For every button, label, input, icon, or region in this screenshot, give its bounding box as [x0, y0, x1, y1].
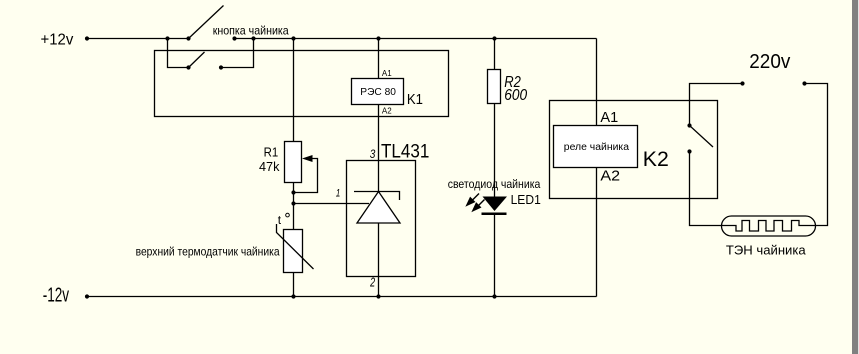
node R1 wiper junction — [291, 190, 295, 194]
wire 220v right lead down to heater — [805, 84, 828, 226]
svg-text:220v: 220v — [749, 51, 790, 73]
svg-text:LED1: LED1 — [511, 193, 541, 207]
svg-text:+12v: +12v — [41, 32, 74, 49]
svg-text:A2: A2 — [600, 167, 620, 184]
resistor R1 body — [285, 142, 302, 183]
node switch lower right contact — [219, 65, 223, 69]
node K1 branch — [376, 36, 380, 40]
wire +12v rail left segment — [87, 38, 189, 40]
node R1 branch — [291, 36, 295, 40]
node +12v rail start — [85, 36, 89, 40]
wire 220v left lead to K2 contact — [690, 84, 743, 126]
wire R1 branch drop — [293, 39, 295, 142]
svg-text:K2: K2 — [643, 148, 669, 171]
svg-text:1: 1 — [336, 188, 341, 200]
node LED rail junction — [492, 294, 496, 298]
LED emission arrow 2 — [477, 200, 485, 208]
node TL431 rail junction — [376, 294, 380, 298]
svg-text:A2: A2 — [382, 107, 392, 116]
svg-text:верхний термодатчик чайника: верхний термодатчик чайника — [136, 245, 280, 259]
thermistor body — [284, 230, 303, 273]
node thermistor rail junction — [291, 294, 295, 298]
wire LED to -12v rail — [494, 215, 496, 297]
LED LED1 triangle — [483, 197, 508, 212]
svg-text:ТЭН чайника: ТЭН чайника — [726, 243, 806, 257]
svg-text:2: 2 — [369, 276, 375, 290]
wire node to TL431 pin 1 — [294, 203, 370, 205]
svg-text:600: 600 — [504, 87, 527, 104]
relay K1 coil box РЭС 80 — [352, 79, 404, 105]
wire TL431 anode to -12v rail — [378, 223, 380, 297]
heater ТЭН stadium outline — [722, 216, 816, 236]
node pin1 junction — [291, 201, 295, 205]
node switch upper left contact — [186, 36, 190, 40]
svg-text:3: 3 — [370, 147, 376, 161]
thermistor diagonal strike — [277, 224, 314, 269]
heater meander element — [722, 221, 816, 232]
svg-text:кнопка чайника: кнопка чайника — [213, 23, 289, 37]
switch S1a blade (кнопка чайника upper contact) — [189, 6, 224, 39]
node at x167.5 — [165, 36, 169, 40]
switch K2 contact blade — [690, 126, 714, 148]
svg-text:47k: 47k — [259, 160, 280, 174]
node 220v left terminal — [740, 81, 744, 85]
wire +12v rail right segment — [235, 38, 597, 40]
wire thermistor to -12v rail — [293, 273, 295, 297]
svg-text:реле чайника: реле чайника — [564, 142, 630, 153]
wire latching loop rectangle — [155, 51, 449, 117]
wire K2 A1 drop from +12v rail — [596, 39, 598, 126]
node K2 contact top — [687, 123, 691, 127]
svg-text:A1: A1 — [600, 109, 618, 126]
relay K2 outer box — [550, 101, 718, 199]
node -12v rail start — [85, 294, 89, 298]
node switch upper right contact — [232, 36, 236, 40]
wire K1 coil A2 to TL431 cathode — [378, 105, 380, 192]
node 220v right terminal — [802, 81, 806, 85]
LED emission arrow 1 — [467, 194, 485, 211]
switch S1b blade (lower latching contact) — [189, 52, 205, 68]
svg-text:R1: R1 — [264, 146, 279, 160]
LED cathode bar — [482, 213, 507, 216]
resistor R1 wiper arrowhead — [302, 155, 313, 162]
svg-text:A1: A1 — [382, 69, 392, 78]
wire R2 branch drop — [494, 39, 496, 70]
wire -12v rail — [87, 296, 597, 298]
node at x253.5 — [251, 36, 255, 40]
relay K2 coil box реле чайника — [554, 126, 638, 168]
svg-text:РЭС 80: РЭС 80 — [360, 86, 396, 98]
op-amp U1 TL431 box — [347, 161, 416, 277]
svg-text:светодиод чайника: светодиод чайника — [448, 177, 541, 191]
wire R1 bottom to thermistor — [293, 183, 295, 230]
wire K2 contact to heater left lead — [690, 152, 723, 226]
right gray border stripe — [852, 0, 858, 354]
wire lower contact left drop — [168, 39, 189, 68]
wire K2 coil A2 to -12v rail — [596, 168, 598, 297]
TL431 triangle — [357, 192, 400, 224]
node switch lower left contact — [186, 65, 190, 69]
wire lower contact right side — [221, 39, 254, 68]
wire R2 to LED — [494, 104, 496, 197]
resistor R2 body — [488, 70, 501, 104]
wire R1 wiper link — [294, 159, 318, 193]
TL431 cathode bar with reference hook — [354, 192, 400, 201]
svg-text:K1: K1 — [407, 91, 423, 108]
node R2 branch — [492, 36, 496, 40]
wire K1 coil A1 drop — [378, 39, 380, 79]
svg-text:-12v: -12v — [43, 284, 69, 306]
node K2 contact bottom — [687, 149, 691, 153]
svg-text:TL431: TL431 — [381, 142, 429, 163]
